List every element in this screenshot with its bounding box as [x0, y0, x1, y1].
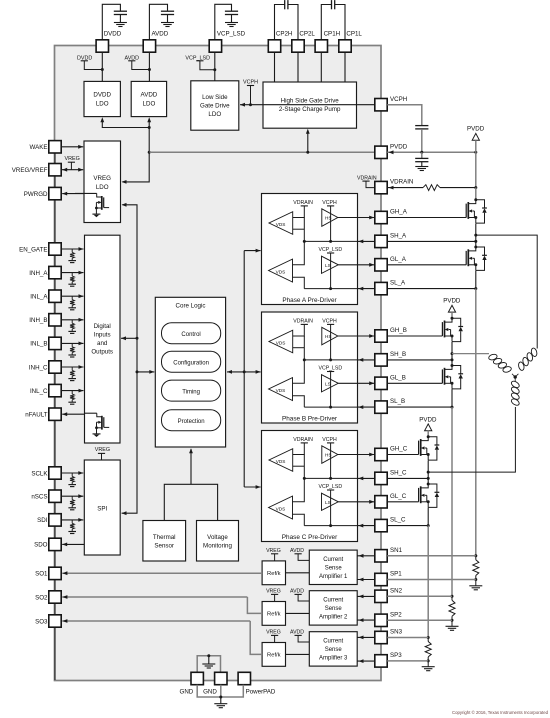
svg-text:DVDD: DVDD: [104, 31, 122, 38]
wire GL_A gate: [387, 264, 466, 266]
svg-text:VDS: VDS: [276, 270, 286, 275]
svg-text:INH_B: INH_B: [29, 317, 47, 324]
svg-text:LDO: LDO: [143, 101, 156, 108]
svg-text:VDRAIN: VDRAIN: [293, 319, 313, 325]
wire SL_C external: [387, 525, 428, 527]
wire VDS low inputs phase C: [293, 478, 305, 501]
wire VREG/VREF bidirectional: [61, 169, 83, 171]
block Ref/k 1: [262, 561, 285, 585]
comparator VDS high phase C: [269, 449, 293, 472]
wire SL internal phase C: [304, 525, 357, 527]
wire VCP_LSD pin to Low Side LDO: [214, 52, 216, 81]
pulldown resistor on INL_B: [71, 343, 73, 346]
wire monitors to Core Logic: [164, 484, 217, 520]
svg-text:PowerPAD: PowerPAD: [246, 689, 276, 696]
svg-text:VDS: VDS: [276, 459, 286, 464]
svg-text:INL_C: INL_C: [30, 388, 48, 395]
pin SP3: [375, 655, 387, 667]
wire PVDD external rail: [387, 151, 476, 153]
block Ref/k 2: [262, 602, 285, 626]
svg-text:SP1: SP1: [390, 571, 402, 578]
mosfet low side phase B: [451, 364, 454, 367]
wire SL_B external: [387, 406, 452, 408]
block Thermal Sensor: [143, 521, 186, 562]
svg-text:VDS: VDS: [276, 507, 286, 512]
pin GL_C: [375, 496, 387, 508]
wire VDS low inputs phase A: [293, 241, 305, 264]
block Digital Inputs and Outputs: [85, 235, 121, 443]
wire CP1H-CP1L flying cap: [321, 5, 331, 41]
resistor shunt phase A with ground: [474, 554, 477, 557]
svg-text:SH_C: SH_C: [390, 470, 407, 477]
wire AVDD to bypass cap: [149, 4, 167, 40]
wire GH output phase B: [338, 335, 374, 337]
pin WAKE: [49, 141, 61, 153]
block SPI: [84, 460, 120, 555]
wire Ref/k to CSA 1: [286, 572, 310, 574]
svg-text:LS: LS: [325, 263, 331, 268]
wire INL_C to Digital IO: [61, 390, 83, 392]
wire nSCS to SPI: [61, 495, 83, 497]
wire GH_A gate: [387, 217, 466, 219]
svg-text:SO2: SO2: [35, 594, 48, 601]
motor star point: [514, 375, 517, 378]
svg-text:SN2: SN2: [390, 587, 403, 594]
block Current Sense Amplifier 2: [309, 591, 357, 625]
svg-text:PWRGD: PWRGD: [24, 191, 48, 198]
pin SP1: [375, 573, 387, 585]
pulldown resistor on SDI: [71, 520, 73, 523]
svg-text:VCP_LSD: VCP_LSD: [319, 366, 343, 372]
wire SH internal phase B: [304, 359, 357, 361]
ground of VCP_LSD cap: [225, 22, 238, 24]
svg-text:Gate Drive: Gate Drive: [200, 103, 230, 110]
svg-text:LS: LS: [325, 500, 331, 505]
IC body: [55, 46, 382, 681]
svg-text:SO1: SO1: [35, 571, 48, 578]
svg-text:SH_B: SH_B: [390, 351, 406, 358]
wire VDS low inputs phase B: [293, 360, 305, 383]
svg-text:VDS: VDS: [276, 222, 286, 227]
wire SDO from SPI: [62, 543, 84, 545]
svg-text:nFAULT: nFAULT: [25, 412, 47, 419]
svg-text:Control: Control: [181, 332, 200, 338]
svg-text:Current: Current: [323, 638, 343, 644]
svg-text:VCP_LSD: VCP_LSD: [319, 247, 343, 253]
pin SO2: [49, 591, 61, 603]
wire DVDD to bypass cap: [102, 4, 120, 40]
wire INH_A to Digital IO: [61, 272, 83, 274]
buffer LS phase A: [322, 256, 339, 273]
block AVDD LDO: [131, 81, 166, 116]
wire SH_B block to pin: [358, 359, 376, 361]
capacitor PVDD to ground: [421, 152, 423, 158]
wire SN2 external: [387, 595, 452, 597]
wire SCLK to SPI: [61, 472, 83, 474]
wire SH_A external: [387, 240, 476, 242]
block Phase A Pre-Driver: [262, 194, 358, 305]
svg-text:High Side Gate Drive: High Side Gate Drive: [281, 97, 340, 104]
wire SL input arrow phase B: [358, 405, 363, 409]
block Core Logic: [155, 297, 225, 447]
pin CP2L: [292, 40, 304, 52]
svg-text:SP3: SP3: [390, 652, 402, 659]
pulldown resistor on INH_A: [71, 273, 73, 276]
wire SL internal phase B: [304, 406, 357, 408]
pin DVDD: [96, 40, 108, 52]
buffer HS phase C: [322, 446, 338, 464]
svg-text:VREG: VREG: [266, 548, 281, 554]
svg-text:WAKE: WAKE: [30, 144, 48, 151]
svg-text:GL_B: GL_B: [390, 374, 406, 381]
svg-text:SL_A: SL_A: [390, 280, 406, 287]
svg-text:VDRAIN: VDRAIN: [293, 200, 313, 206]
svg-text:SH_A: SH_A: [390, 233, 407, 240]
pin GND at 197.2: [191, 672, 203, 684]
svg-text:AVDD: AVDD: [290, 630, 304, 636]
svg-text:SDO: SDO: [34, 542, 48, 549]
svg-text:GND: GND: [180, 689, 194, 696]
svg-text:Phase B Pre-Driver: Phase B Pre-Driver: [282, 416, 338, 423]
wire GL output phase C: [338, 501, 374, 503]
svg-text:AVDD: AVDD: [290, 589, 304, 595]
svg-text:VCP_LSD: VCP_LSD: [319, 484, 343, 490]
svg-text:Protection: Protection: [178, 419, 205, 425]
pin INH_C: [49, 361, 61, 373]
svg-text:CP1H: CP1H: [324, 31, 341, 38]
wire SP3 external: [387, 660, 428, 662]
pin GL_A: [375, 259, 387, 271]
wire EN_GATE to Digital IO: [61, 248, 83, 250]
block High Side Gate Drive 2-Stage Charge Pump: [263, 82, 357, 128]
subblock Protection: [162, 410, 221, 431]
wire DVDD pin to DVDD LDO: [101, 52, 103, 81]
buffer HS phase B: [322, 327, 338, 345]
svg-text:AVDD: AVDD: [152, 31, 169, 38]
svg-text:VCPH: VCPH: [322, 437, 337, 443]
svg-text:Inputs: Inputs: [94, 332, 111, 339]
block Current Sense Amplifier 1: [309, 550, 357, 584]
comparator VDS high phase B: [269, 330, 293, 353]
comparator VDS low phase C: [269, 496, 293, 519]
wire VCP_LSD rail through LS phase B: [330, 372, 332, 408]
ground bracket below GND and PowerPAD pins: [197, 685, 243, 697]
inductor motor phase A winding: [530, 347, 537, 357]
pin SH_B: [375, 354, 387, 366]
pin AVDD: [143, 40, 155, 52]
pin SL_B: [375, 401, 387, 413]
wire SL_C block to pin: [358, 525, 376, 527]
wire SL_A external: [387, 288, 476, 290]
subblock Control: [162, 323, 221, 344]
block Phase B Pre-Driver: [262, 312, 358, 423]
svg-text:Sensor: Sensor: [154, 543, 174, 550]
wire WAKE to VREG LDO: [61, 146, 83, 148]
svg-text:Timing: Timing: [182, 389, 200, 395]
wire VDRAIN sense phase B: [293, 324, 305, 336]
wire SDI to SPI: [61, 519, 83, 521]
wire SH_C external: [387, 477, 428, 479]
pulldown resistor on nSCS: [71, 496, 73, 499]
wire SL_B block to pin: [358, 406, 376, 408]
svg-text:Sense: Sense: [325, 565, 343, 571]
pulldown resistor on INL_C: [71, 391, 73, 394]
wire VCP_LSD rail through LS phase A: [330, 253, 332, 289]
pin SO3: [49, 615, 61, 627]
wire phase A switch node: [475, 223, 477, 246]
mosfet low side phase A: [474, 246, 477, 249]
svg-text:Low Side: Low Side: [202, 94, 228, 101]
block VREG LDO: [84, 141, 121, 223]
wire SL_A block to pin: [358, 288, 376, 290]
mosfet high side phase C: [427, 435, 430, 438]
wire SO1 output: [62, 572, 262, 574]
wire SN3 external: [387, 637, 428, 639]
svg-text:VDS: VDS: [276, 388, 286, 393]
pin CP2H: [268, 40, 280, 52]
svg-text:SO3: SO3: [35, 618, 48, 625]
wire charge pump PVDD feed: [307, 133, 309, 153]
svg-text:nSCS: nSCS: [31, 494, 47, 501]
capacitor on DVDD: [114, 10, 127, 12]
svg-text:AVDD: AVDD: [290, 548, 304, 554]
wire VDRAIN sense phase A: [293, 206, 305, 218]
inductor motor phase B winding: [488, 353, 498, 360]
wire control trunk to Phase A and Phase C: [243, 251, 245, 487]
pin PowerPAD at 244.3: [238, 672, 250, 684]
pin SN2: [375, 590, 387, 602]
block Current Sense Amplifier 3: [309, 632, 357, 666]
pulldown resistor on INL_A: [71, 296, 73, 299]
svg-text:VDRAIN: VDRAIN: [390, 179, 413, 186]
wire CP2H-CP2L flying cap: [275, 5, 285, 41]
wire SP1 external: [387, 579, 476, 581]
svg-text:GL_C: GL_C: [390, 493, 407, 500]
svg-text:VDS: VDS: [276, 341, 286, 346]
wire SH internal phase A: [304, 240, 357, 242]
svg-text:DVDD: DVDD: [93, 92, 111, 99]
svg-text:SN3: SN3: [390, 629, 403, 636]
pulldown resistor on SCLK: [71, 473, 73, 476]
pin VREG/VREF: [49, 164, 61, 176]
svg-text:PVDD: PVDD: [443, 298, 461, 305]
svg-text:Copyright © 2016, Texas Instru: Copyright © 2016, Texas Instruments Inco…: [452, 710, 549, 715]
svg-text:PVDD: PVDD: [390, 143, 408, 150]
pin CP1H: [315, 40, 327, 52]
svg-text:Phase A Pre-Driver: Phase A Pre-Driver: [282, 297, 337, 304]
capacitor on AVDD: [161, 10, 174, 12]
wire SH input arrow phase B: [358, 358, 363, 362]
capacitor on VCP_LSD: [225, 10, 238, 12]
buffer LS phase B: [322, 375, 339, 392]
svg-text:GL_A: GL_A: [390, 256, 407, 263]
ground of PVDD cap: [415, 166, 428, 168]
svg-text:VREG: VREG: [93, 175, 111, 182]
pin SDI: [49, 514, 61, 526]
nmos open-drain nFAULT driver: [85, 412, 97, 414]
buffer LS phase C: [322, 493, 339, 510]
ground bracket above GND pins: [197, 656, 220, 673]
capacitor VCPH to PVDD: [415, 125, 428, 127]
svg-text:Amplifier 1: Amplifier 1: [319, 574, 348, 580]
wire PVDD to VREG LDO: [122, 152, 149, 182]
wire phase C switch node: [427, 460, 429, 484]
ground of DVDD cap: [114, 22, 127, 24]
wire SP3 into CSA: [357, 660, 375, 662]
wire VCP_LSD rail through LS phase C: [330, 490, 332, 526]
wire GL output phase B: [338, 382, 374, 384]
svg-text:Core Logic: Core Logic: [176, 303, 206, 310]
svg-text:2-Stage Charge Pump: 2-Stage Charge Pump: [279, 106, 341, 113]
wire GL_B gate: [387, 382, 442, 384]
wire SP1 into CSA: [357, 579, 375, 581]
wire SL internal phase A: [304, 288, 357, 290]
wire motor phase C: [428, 407, 515, 472]
pin SN1: [375, 550, 387, 562]
svg-text:INH_A: INH_A: [29, 270, 48, 277]
wire INH_C to Digital IO: [61, 366, 83, 368]
wire SH_A block to pin: [358, 240, 376, 242]
wire motor phase B: [452, 353, 489, 355]
svg-text:EN_GATE: EN_GATE: [19, 246, 47, 253]
svg-text:LDO: LDO: [96, 184, 109, 191]
block Voltage Monitoring: [197, 521, 239, 562]
pin GND at 220.8: [215, 672, 227, 684]
wire VDRAIN external with sense resistor: [387, 187, 423, 189]
wire VCPH rail through HS phase C: [330, 443, 332, 479]
wire PVDD feed to DVDD and AVDD LDOs: [102, 122, 149, 128]
wire GH output phase C: [338, 454, 374, 456]
wire VCPH external to cap: [387, 105, 422, 126]
wire PWRGD from VREG LDO: [62, 193, 84, 195]
svg-text:Ref/k: Ref/k: [267, 571, 281, 577]
wire phase B switch node: [451, 342, 453, 366]
pin INH_A: [49, 266, 61, 278]
pin EN_GATE: [49, 243, 61, 255]
svg-text:CP2L: CP2L: [299, 31, 315, 38]
svg-text:Monitoring: Monitoring: [203, 543, 232, 550]
svg-text:Configuration: Configuration: [173, 360, 209, 366]
svg-text:and: and: [97, 340, 108, 347]
pin SH_C: [375, 472, 387, 484]
svg-text:Amplifier 2: Amplifier 2: [319, 614, 348, 620]
pin INL_B: [49, 337, 61, 349]
svg-text:Sense: Sense: [325, 606, 343, 612]
nmos pass transistor in VREG LDO: [75, 192, 97, 194]
svg-text:VREG: VREG: [266, 630, 281, 636]
wire GL_C gate: [387, 501, 418, 503]
wire SH_C block to pin: [358, 477, 376, 479]
svg-text:VDRAIN: VDRAIN: [293, 437, 313, 443]
ground symbol above GND pins: [202, 663, 215, 665]
wire VCPH rail through HS phase A: [330, 206, 332, 242]
wire VDRAIN sense phase C: [293, 443, 305, 455]
ground symbol below GND pins: [214, 703, 227, 705]
svg-text:Voltage: Voltage: [207, 534, 228, 541]
svg-text:LDO: LDO: [208, 111, 221, 118]
block Low Side Gate Drive LDO: [191, 81, 239, 130]
svg-text:SDI: SDI: [37, 517, 48, 524]
pulldown resistor on INH_C: [71, 367, 73, 370]
wire SL input arrow phase A: [358, 287, 363, 291]
wires CP pins into charge pump: [274, 52, 276, 82]
wire VCPH to Low Side LDO and pin: [357, 104, 376, 106]
block Ref/k 3: [262, 643, 285, 667]
pin SDO: [49, 538, 61, 550]
resistor shunt phase B with ground: [451, 595, 454, 598]
resistor shunt phase C with ground: [427, 636, 430, 639]
wire trunk to Core Logic: [137, 371, 154, 373]
wire SN1 external: [387, 555, 476, 557]
wire GH_C gate: [387, 454, 418, 456]
pin INL_A: [49, 290, 61, 302]
capacitor CP2 flying: [284, 0, 286, 9]
pin INL_C: [49, 384, 61, 396]
pin VCPH: [375, 99, 387, 111]
wire PVDD pin into chip: [149, 151, 375, 153]
wire SH internal phase C: [304, 477, 357, 479]
svg-text:Amplifier 3: Amplifier 3: [319, 655, 348, 661]
svg-text:INL_A: INL_A: [30, 294, 48, 301]
svg-text:GH_B: GH_B: [390, 327, 407, 334]
svg-text:INH_C: INH_C: [29, 364, 48, 371]
pin SH_A: [375, 235, 387, 247]
svg-text:Current: Current: [323, 557, 343, 563]
pin GL_B: [375, 377, 387, 389]
svg-text:SL_C: SL_C: [390, 517, 406, 524]
ground of AVDD cap: [161, 22, 174, 24]
pin SCLK: [49, 467, 61, 479]
wire VCPH rail through HS phase B: [330, 324, 332, 360]
comparator VDS low phase B: [269, 378, 293, 401]
pin GH_C: [375, 448, 387, 460]
pin CP1L: [339, 40, 351, 52]
wire SP2 into CSA: [357, 619, 375, 621]
svg-text:VCPH: VCPH: [322, 319, 337, 325]
wire SP2 external: [387, 619, 452, 621]
svg-text:VREG: VREG: [95, 447, 110, 453]
pin SN3: [375, 631, 387, 643]
svg-text:Thermal: Thermal: [153, 534, 176, 541]
svg-text:GND: GND: [203, 689, 217, 696]
svg-text:Ref/k: Ref/k: [267, 612, 281, 618]
svg-text:LDO: LDO: [96, 101, 109, 108]
svg-text:CP2H: CP2H: [276, 31, 293, 38]
svg-text:VCPH: VCPH: [322, 200, 337, 206]
wire SH_B external: [387, 359, 452, 361]
wire phase C shunt rail: [427, 526, 429, 638]
pin INH_B: [49, 314, 61, 326]
subblock Configuration: [162, 351, 221, 372]
wire SO3 output: [250, 621, 262, 654]
pin SP2: [375, 614, 387, 626]
wire Digital IO to trunk: [121, 337, 137, 339]
svg-text:VCPH: VCPH: [243, 79, 258, 85]
pulldown resistor on EN_GATE: [71, 249, 73, 252]
mosfet high side phase B: [451, 317, 454, 320]
svg-text:Digital: Digital: [94, 323, 111, 330]
wire SO2 output: [247, 597, 262, 613]
pin SL_C: [375, 519, 387, 531]
svg-text:Sense: Sense: [325, 647, 343, 653]
wire INL_A to Digital IO: [61, 295, 83, 297]
wire AVDD pin to AVDD LDO: [148, 52, 150, 81]
wire GH_B gate: [387, 335, 442, 337]
wire VREG LDO feedback trunk: [122, 205, 137, 513]
pulldown resistor on INH_B: [71, 320, 73, 323]
buffer HS phase A: [322, 209, 338, 227]
pin SO1: [49, 567, 61, 579]
